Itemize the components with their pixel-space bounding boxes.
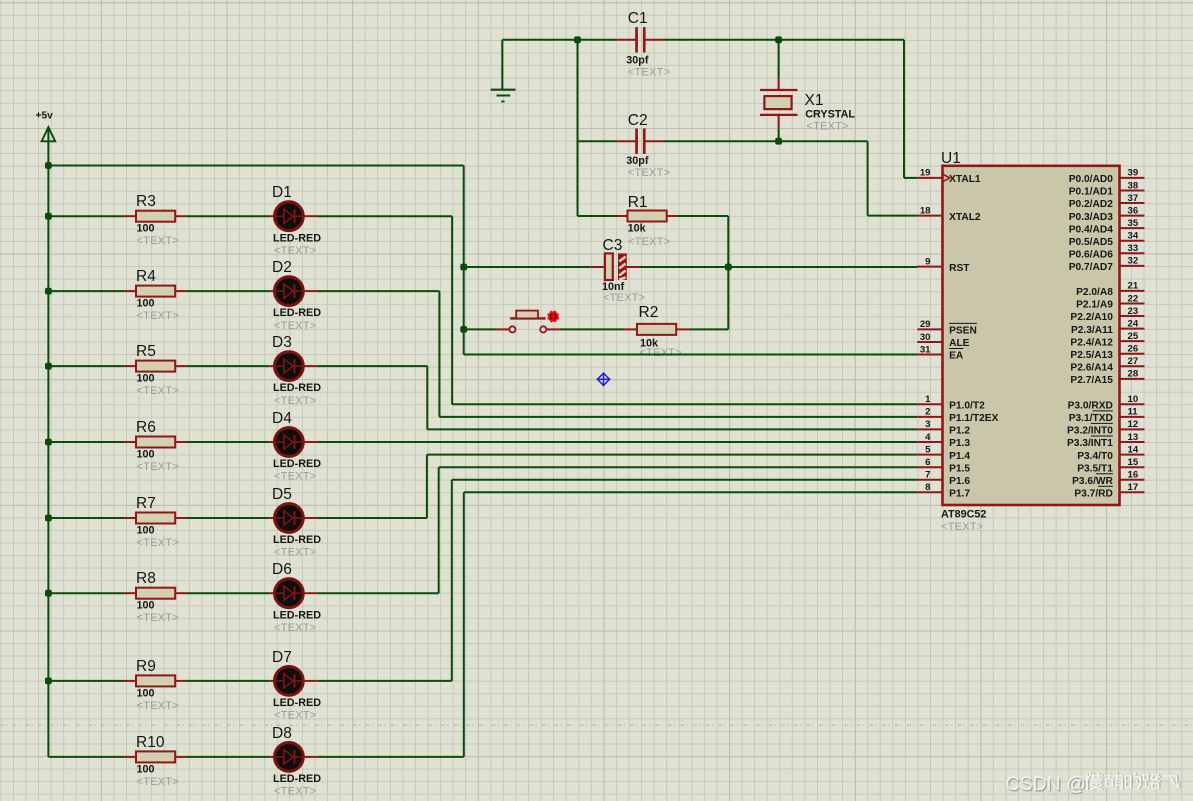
pin 29 PSEN [917,328,942,330]
svg-text:<TEXT>: <TEXT> [603,292,646,304]
svg-text:100: 100 [137,763,155,775]
button actuator marker [548,311,559,322]
wire D5 to port [317,517,427,519]
watermark CSDN [1006,773,1088,796]
svg-text:R10: R10 [136,734,165,751]
wire D6 to port [317,592,439,594]
svg-text:100: 100 [137,687,155,699]
svg-text:<TEXT>: <TEXT> [137,537,180,549]
svg-text:100: 100 [137,524,155,536]
wire D1 to port [317,215,452,217]
pin 35 P0.4/AD4 [1120,227,1145,229]
svg-text:27: 27 [1128,356,1139,367]
svg-text:<TEXT>: <TEXT> [137,776,180,788]
svg-text:P0.4/AD4: P0.4/AD4 [1069,224,1114,235]
svg-text:<TEXT>: <TEXT> [137,235,180,247]
pin 31 EA [917,354,942,356]
svg-text:U1: U1 [941,150,961,167]
svg-text:34: 34 [1128,231,1139,242]
pin 38 P0.1/AD1 [1120,189,1145,191]
pin 17 P3.7/RD [1120,491,1145,493]
pin 21 P2.0/A8 [1120,290,1145,292]
pin 28 P2.7/A15 [1120,378,1145,380]
svg-text:35: 35 [1128,218,1139,229]
svg-text:18: 18 [920,205,931,216]
wire +5v rail [48,165,463,167]
svg-text:10k: 10k [628,223,647,235]
pin 34 P0.5/AD5 [1120,240,1145,242]
svg-text:C1: C1 [628,10,648,27]
pin 3 P1.2 [917,428,942,430]
svg-text:R9: R9 [136,658,156,675]
sheet divider dash line [0,724,1193,726]
svg-text:LED-RED: LED-RED [273,307,321,319]
svg-text:100: 100 [137,298,155,310]
svg-text:8: 8 [925,482,931,493]
svg-text:P3.6/WR: P3.6/WR [1072,476,1113,487]
resistor R4 [48,290,124,292]
svg-text:<TEXT>: <TEXT> [628,66,671,78]
pin 37 P0.2/AD2 [1120,202,1145,204]
svg-text:100: 100 [137,600,155,612]
svg-text:10: 10 [1128,394,1139,405]
svg-text:<TEXT>: <TEXT> [137,461,180,473]
svg-text:LED-RED: LED-RED [273,773,321,785]
capacitor C3 [590,266,605,268]
svg-text:LED-RED: LED-RED [273,609,321,621]
node rail row D4 [45,439,52,446]
wire C2 row to XTAL2 [663,140,867,142]
wire XTAL1 drop [903,40,905,178]
pin 19 XTAL1 [917,177,942,179]
svg-text:3: 3 [925,419,930,430]
pin 13 P3.3/INT1 [1120,441,1145,443]
node rail row D5 [45,515,52,522]
pin 16 P3.6/WR [1120,479,1145,481]
node rail row D2 [45,288,52,295]
svg-text:6: 6 [925,457,930,468]
svg-text:P1.5: P1.5 [949,463,970,474]
svg-text:PSEN: PSEN [949,326,977,337]
svg-text:P0.3/AD3: P0.3/AD3 [1069,212,1114,223]
pin 27 P2.6/A14 [1120,365,1145,367]
svg-text:R4: R4 [136,268,156,285]
svg-text:5: 5 [925,444,931,455]
pin 5 P1.4 [917,454,942,456]
resistor R10 [48,756,124,758]
svg-text:CRYSTAL: CRYSTAL [805,108,855,120]
svg-text:25: 25 [1128,331,1139,342]
node rail row D7 [45,678,52,685]
wire R1-RST-R2 vertical [727,216,729,329]
svg-text:16: 16 [1128,470,1139,481]
pin 22 P2.1/A9 [1120,302,1145,304]
ground [501,40,503,90]
pin 4 P1.3 [917,441,942,443]
svg-text:RST: RST [949,263,970,274]
svg-text:D7: D7 [272,649,292,666]
svg-text:P3.4/T0: P3.4/T0 [1077,451,1113,462]
node button column [460,326,467,333]
svg-text:ALE: ALE [949,338,970,349]
node C2-right crystal bottom [775,138,782,145]
svg-text:XTAL1: XTAL1 [949,174,981,185]
svg-text:P3.2/INT0: P3.2/INT0 [1067,426,1113,437]
svg-text:P2.1/A9: P2.1/A9 [1076,300,1113,311]
svg-text:EA: EA [949,351,964,362]
svg-text:21: 21 [1128,281,1139,292]
crystal X1 [778,40,780,79]
push button [464,328,497,330]
pin 12 P3.2/INT0 [1120,428,1145,430]
svg-text:D5: D5 [272,486,292,503]
LED D2 [269,290,274,292]
svg-text:<TEXT>: <TEXT> [137,700,180,712]
svg-text:<TEXT>: <TEXT> [274,547,317,559]
svg-text:<TEXT>: <TEXT> [639,347,682,359]
pin 2 P1.1/T2EX [917,416,942,418]
svg-text:<TEXT>: <TEXT> [274,245,317,257]
svg-text:<TEXT>: <TEXT> [137,385,180,397]
node rail row D1 [45,213,52,220]
svg-text:LED-RED: LED-RED [273,232,321,244]
pin 19 XTAL1 clock mark [943,174,950,181]
wire D3 to port [317,365,427,367]
svg-text:11: 11 [1128,407,1139,418]
resistor R9 [48,680,124,682]
svg-text:33: 33 [1128,243,1139,254]
svg-text:P0.6/AD6: P0.6/AD6 [1069,249,1114,260]
node rail row D3 [45,363,52,370]
pin 23 P2.2/A10 [1120,315,1145,317]
svg-text:P3.0/RXD: P3.0/RXD [1068,401,1113,412]
LED D5 [269,517,274,519]
svg-text:14: 14 [1128,444,1139,455]
svg-text:D6: D6 [272,561,292,578]
svg-text:26: 26 [1128,344,1139,355]
capacitor C2 [578,140,617,142]
svg-text:23: 23 [1128,306,1139,317]
svg-text:P0.1/AD1: P0.1/AD1 [1069,187,1114,198]
svg-text:R3: R3 [136,193,156,210]
svg-text:30pf: 30pf [626,155,649,167]
svg-text:P1.6: P1.6 [949,476,970,487]
svg-text:LED-RED: LED-RED [273,534,321,546]
pin 24 P2.3/A11 [1120,328,1145,330]
svg-text:28: 28 [1128,369,1139,380]
svg-text:13: 13 [1128,432,1139,443]
wire D7 to port [317,680,452,682]
wire C1C2 left vertical [577,40,579,216]
pin 7 P1.6 [917,479,942,481]
resistor R7 [48,517,124,519]
wire EA row [464,354,918,356]
origin marker [597,372,611,386]
wire XTAL2 drop [867,141,869,215]
pin 9 RST [917,266,942,268]
svg-text:<TEXT>: <TEXT> [274,710,317,722]
wire RST row [464,266,591,268]
svg-text:P2.3/A11: P2.3/A11 [1071,325,1113,336]
svg-text:39: 39 [1128,168,1139,179]
node RST-R2 [725,264,732,271]
svg-text:<TEXT>: <TEXT> [941,521,984,533]
svg-text:P2.2/A10: P2.2/A10 [1070,312,1113,323]
svg-text:<TEXT>: <TEXT> [274,471,317,483]
svg-text:R6: R6 [136,419,156,436]
svg-text:<TEXT>: <TEXT> [274,395,317,407]
svg-text:17: 17 [1128,482,1139,493]
svg-text:C2: C2 [628,112,648,129]
svg-text:24: 24 [1128,318,1139,329]
svg-text:D8: D8 [272,725,292,742]
pin 15 P3.5/T1 [1120,466,1145,468]
svg-text:D4: D4 [272,410,292,427]
svg-text:R1: R1 [628,194,648,211]
node C1-right crystal top [775,36,782,43]
svg-text:P1.7: P1.7 [949,489,970,500]
pin 11 P3.1/TXD [1120,416,1145,418]
svg-text:30: 30 [920,332,931,343]
svg-text:<TEXT>: <TEXT> [137,612,180,624]
svg-text:P0.0/AD0: P0.0/AD0 [1069,174,1114,185]
pin 10 P3.0/RXD [1120,403,1145,405]
svg-text:CSDN @: CSDN @ [1006,773,1086,795]
capacitor C1 [616,39,635,41]
svg-text:P3.5/T1: P3.5/T1 [1077,463,1113,474]
resistor R1 [578,215,618,217]
LED D4 [269,441,274,443]
LED D6 [269,592,274,594]
svg-text:XTAL2: XTAL2 [949,212,981,223]
pin 25 P2.4/A12 [1120,340,1145,342]
svg-text:LED-RED: LED-RED [273,458,321,470]
svg-text:100: 100 [137,373,155,385]
LED D1 [269,215,274,217]
svg-text:D3: D3 [272,334,292,351]
resistor R5 [48,365,124,367]
svg-text:D1: D1 [272,184,292,201]
svg-text:36: 36 [1128,205,1139,216]
svg-text:R2: R2 [639,304,659,321]
svg-text:D2: D2 [272,259,292,276]
resistor R3 [48,215,124,217]
svg-text:P1.4: P1.4 [949,451,970,462]
svg-text:38: 38 [1128,180,1139,191]
wire D4 to port [317,441,917,443]
svg-text:19: 19 [920,168,931,179]
svg-text:R7: R7 [136,495,156,512]
pin 14 P3.4/T0 [1120,454,1145,456]
node RST column [460,264,467,271]
svg-text:P0.2/AD2: P0.2/AD2 [1069,199,1114,210]
svg-text:P3.7/RD: P3.7/RD [1074,489,1113,500]
svg-text:P1.1/T2EX: P1.1/T2EX [949,413,998,424]
wire +5v vertical rail [47,127,49,757]
pin 1 P1.0/T2 [917,403,942,405]
svg-text:P3.3/INT1: P3.3/INT1 [1067,438,1113,449]
svg-text:31: 31 [920,344,931,355]
node rail row D6 [45,590,52,597]
resistor R8 [48,592,124,594]
svg-text:30pf: 30pf [626,54,649,66]
pin 36 P0.3/AD3 [1120,215,1145,217]
pin 39 P0.0/AD0 [1120,177,1145,179]
svg-text:P2.7/A15: P2.7/A15 [1070,375,1113,386]
pin 32 P0.7/AD7 [1120,265,1145,267]
svg-text:100: 100 [137,223,155,235]
pin 18 XTAL2 [917,215,942,217]
pin 26 P2.5/A13 [1120,353,1145,355]
svg-text:P0.5/AD5: P0.5/AD5 [1069,237,1114,248]
wire top rail C1 row [502,39,616,41]
LED D7 [269,680,274,682]
svg-text:LED-RED: LED-RED [273,382,321,394]
node top rail [45,162,52,169]
svg-text:9: 9 [925,256,930,267]
svg-text:<TEXT>: <TEXT> [274,622,317,634]
svg-text:R8: R8 [136,570,156,587]
svg-text:P2.4/A12: P2.4/A12 [1070,337,1113,348]
svg-text:C3: C3 [603,237,623,254]
svg-text:X1: X1 [805,92,824,109]
svg-text:32: 32 [1128,256,1139,267]
svg-text:LED-RED: LED-RED [273,697,321,709]
svg-text:P1.3: P1.3 [949,438,970,449]
wire D2 to port [317,290,439,292]
pin 33 P0.6/AD6 [1120,252,1145,254]
svg-text:P2.5/A13: P2.5/A13 [1070,350,1113,361]
svg-text:P1.0/T2: P1.0/T2 [949,401,985,412]
resistor R6 [48,441,124,443]
LED D3 [269,365,274,367]
resistor R2 [559,328,624,330]
svg-text:2: 2 [925,407,930,418]
svg-text:P1.2: P1.2 [949,426,970,437]
wire D8 to port [317,756,464,758]
svg-text:R5: R5 [136,343,156,360]
svg-text:<TEXT>: <TEXT> [806,121,849,133]
svg-text:37: 37 [1128,193,1139,204]
svg-text:7: 7 [925,470,930,481]
svg-text:15: 15 [1128,457,1139,468]
svg-text:<TEXT>: <TEXT> [137,310,180,322]
svg-text:1: 1 [925,394,931,405]
svg-text:29: 29 [920,319,931,330]
pin 6 P1.5 [917,466,942,468]
node C1-left [574,36,581,43]
svg-text:<TEXT>: <TEXT> [274,786,317,798]
svg-text:P0.7/AD7: P0.7/AD7 [1069,262,1114,273]
svg-text:22: 22 [1128,293,1139,304]
svg-text:<TEXT>: <TEXT> [628,236,671,248]
svg-text:<TEXT>: <TEXT> [628,167,671,179]
svg-text:P2.0/A8: P2.0/A8 [1076,287,1113,298]
pin 8 P1.7 [917,491,942,493]
IC U1 AT89C52 body [943,166,1120,505]
LED D8 [269,756,274,758]
svg-text:<TEXT>: <TEXT> [274,320,317,332]
svg-text:100: 100 [137,448,155,460]
svg-text:P2.6/A14: P2.6/A14 [1070,362,1113,373]
pin 30 ALE [917,341,942,343]
svg-text:P3.1/TXD: P3.1/TXD [1069,413,1113,424]
svg-text:4: 4 [925,432,931,443]
svg-text:AT89C52: AT89C52 [941,509,986,521]
svg-text:+5v: +5v [36,111,54,122]
svg-text:12: 12 [1128,419,1139,430]
